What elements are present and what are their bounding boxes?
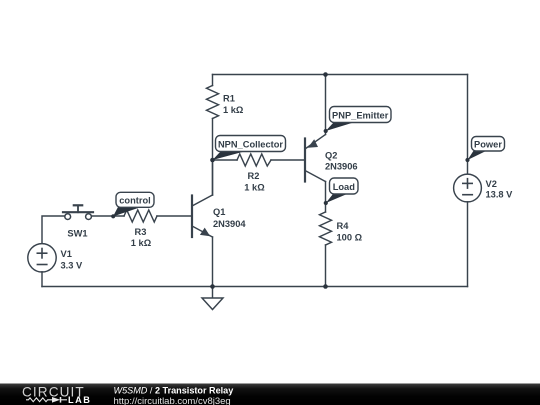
wire top rail from R1 top to V2 branch <box>213 74 468 76</box>
wire R2 right lead to Q2 base <box>271 159 305 161</box>
wire V1 bottom to ground rail <box>41 272 43 287</box>
svg-text:3.3 V: 3.3 V <box>61 260 84 270</box>
junction ground rail / R4 <box>323 284 328 289</box>
svg-text:1 kΩ: 1 kΩ <box>223 105 244 115</box>
svg-text:NPN_Collector: NPN_Collector <box>218 139 283 149</box>
wire R4 bottom lead <box>325 245 327 287</box>
node flag Load <box>324 178 358 205</box>
switch SW1 pushbutton <box>63 205 93 219</box>
resistor R2 <box>237 154 271 166</box>
voltage source V1 <box>28 244 56 272</box>
svg-text:R2: R2 <box>248 171 260 181</box>
wire V1 top to switch <box>42 216 65 244</box>
voltage source V2 <box>454 174 482 202</box>
svg-text:Load: Load <box>333 182 356 192</box>
resistor R1 <box>207 86 219 119</box>
wire Q2 collector down to R4 <box>325 182 327 213</box>
node flag NPN_Collector <box>213 136 286 161</box>
svg-text:R4: R4 <box>337 221 350 231</box>
svg-text:V1: V1 <box>61 249 72 259</box>
wire Q2 emitter up to top rail <box>325 75 327 135</box>
transistor Q1 <box>192 195 213 237</box>
node flag PNP_Emitter <box>324 107 391 134</box>
node flag control <box>111 192 154 218</box>
wire R1 bottom lead to node NPN_Collector <box>212 119 214 161</box>
junction top rail / Q2 emitter <box>323 72 328 77</box>
wire V2 bottom to rail <box>467 202 469 287</box>
svg-text:2N3906: 2N3906 <box>325 162 358 172</box>
wire node to Q1 collector <box>212 160 214 195</box>
wire Q1 base lead from R3 <box>157 215 192 217</box>
svg-text:1 kΩ: 1 kΩ <box>131 238 152 248</box>
svg-text:1 kΩ: 1 kΩ <box>244 182 265 192</box>
resistor R3 <box>124 210 157 222</box>
wire switch to R3 <box>92 215 124 217</box>
svg-text:PNP_Emitter: PNP_Emitter <box>332 110 389 120</box>
svg-text:Q1: Q1 <box>213 207 225 217</box>
svg-text:R3: R3 <box>135 227 147 237</box>
transistor Q2 <box>305 135 326 182</box>
wire V2 branch top <box>467 75 469 175</box>
svg-text:V2: V2 <box>486 179 497 189</box>
ground symbol <box>202 287 223 310</box>
svg-text:W5SMD / 2 Transistor Relay: W5SMD / 2 Transistor Relay <box>114 385 235 395</box>
svg-text:R1: R1 <box>223 94 235 104</box>
svg-text:Power: Power <box>474 139 502 149</box>
wire Q1 emitter down to ground rail <box>212 237 214 287</box>
svg-text:13.8 V: 13.8 V <box>486 189 514 199</box>
junction ground rail / Q1 emitter <box>210 284 215 289</box>
svg-text:Q2: Q2 <box>325 151 337 161</box>
wire R2 left lead <box>213 159 238 161</box>
svg-text:control: control <box>119 195 151 205</box>
wire R1 top lead <box>212 75 214 86</box>
wire bottom rail <box>42 286 468 288</box>
node flag Power <box>465 137 504 163</box>
svg-text:100 Ω: 100 Ω <box>337 233 363 243</box>
svg-text:http://circuitlab.com/cv8j3eg: http://circuitlab.com/cv8j3eg <box>114 396 231 405</box>
svg-text:2N3904: 2N3904 <box>213 219 246 229</box>
node NPN_Collector junction <box>210 158 215 163</box>
resistor R4 <box>320 212 332 245</box>
svg-text:LAB: LAB <box>68 395 91 405</box>
wire Q1 collector up <box>212 160 214 195</box>
svg-text:SW1: SW1 <box>67 228 87 238</box>
CircuitLab logo resistor and diode glyph <box>26 397 67 403</box>
